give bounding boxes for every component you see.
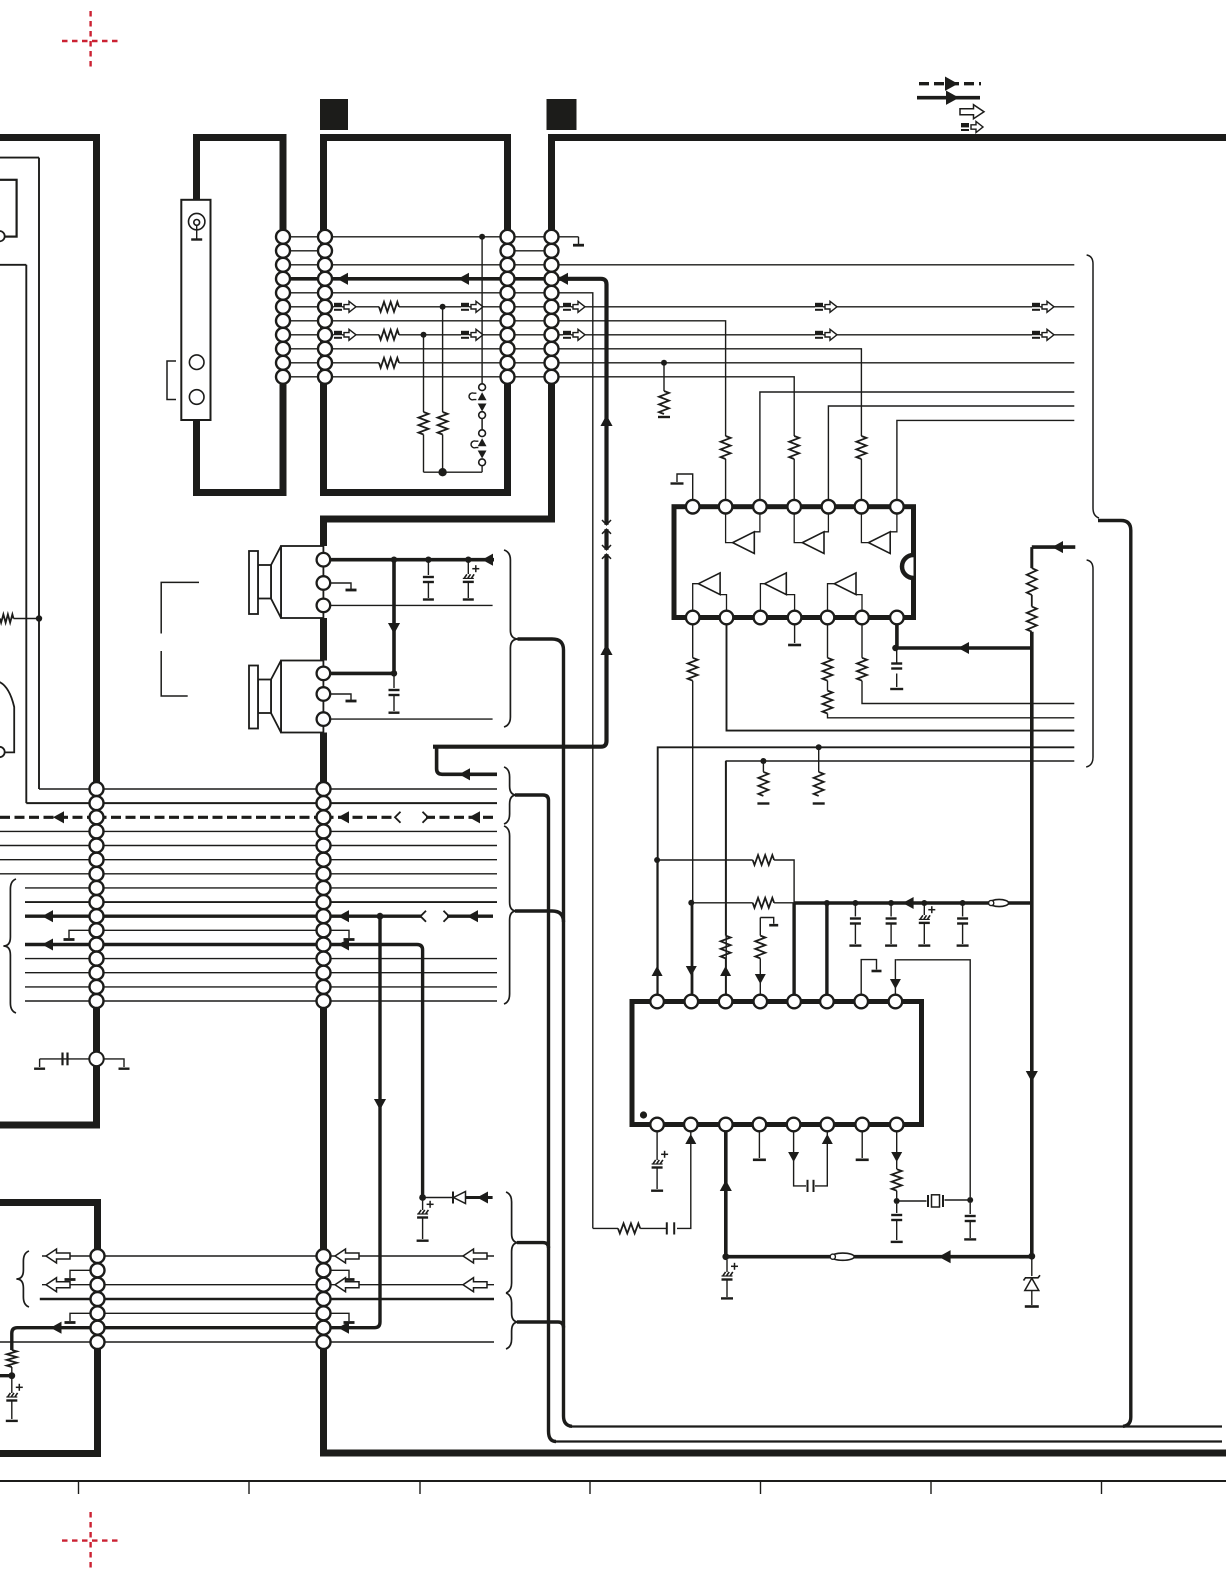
bottom long wire B1 horizontal [554, 1440, 1222, 1442]
mid row 2 wire [97, 802, 324, 804]
U2 pin14 junction dot [722, 1253, 729, 1260]
decoupling cap at U1 pin13 [896, 648, 898, 663]
bottom right brace group A [506, 1192, 519, 1293]
speaker SP1 [322, 546, 329, 618]
left board outline upper [0, 138, 97, 1126]
right stub of junction [104, 1059, 124, 1067]
U2 pin2 feed arrow [690, 903, 692, 995]
power bus y903 thick [794, 901, 1032, 905]
junction dot at bus column [1028, 1253, 1035, 1260]
IC U2 pin1 mark [640, 1111, 647, 1118]
U2 pin3 feed resistor [725, 761, 727, 936]
row 6 resistor to cap [7, 1350, 17, 1367]
speaker SP2 [322, 661, 329, 733]
thin group bracket lower right [1086, 560, 1093, 767]
bus cap C4 [962, 903, 964, 917]
U2 pin9 oscillator net [896, 1131, 898, 1169]
bottom connector left pins [91, 1249, 105, 1263]
U2 pin5 thick feed [792, 903, 795, 995]
net y903 junction dot [688, 900, 694, 906]
mid row 3 dashed bus wire [0, 816, 97, 819]
wire from x26.3 to mid pin 2 [26, 802, 90, 804]
top row 8 junction dot [421, 332, 427, 338]
oscillator feedback wire [897, 960, 970, 1197]
U2 pin1 feed arrow [656, 860, 658, 995]
SP2 ground wire [330, 694, 351, 700]
mid row 11 wire and ground stubs [97, 929, 324, 931]
mid row 15 wire [25, 986, 97, 988]
IC U2 body [632, 1002, 922, 1125]
top row 4 vertical crossover hops [604, 525, 610, 529]
bottom tie wire y472.2 [424, 471, 483, 473]
mid row 8 wire [25, 887, 97, 889]
top row 9 wire to IC1 pin6 [283, 348, 325, 350]
tie junction dot [438, 468, 446, 476]
legend open arrow [960, 105, 984, 119]
page marker square 1 [320, 99, 348, 130]
top row 1 ground [578, 237, 580, 244]
jumper omega label 2 [471, 441, 478, 448]
IC U2 bottom pins [650, 1118, 664, 1132]
U1 pin10 wire two resistors right [827, 624, 829, 658]
IC U1 bottom pins [686, 611, 700, 625]
resistor branch x818.7 [818, 747, 820, 772]
bus B1 joint from brace A [517, 1243, 549, 1248]
top row 3 wire [283, 264, 325, 266]
feed resistor into U1 pin2 [721, 436, 731, 459]
bottom left brace [16, 1251, 29, 1307]
feed resistor into U1 pin6 [856, 436, 866, 459]
mid row 5 wire [0, 845, 97, 847]
wire vert x38.5 down to junction [38, 158, 40, 789]
inverter U1b [802, 532, 824, 554]
U2 pin8 feed from crystal net [895, 960, 896, 995]
bus B1 from brace1 [515, 795, 556, 1442]
page marker square 2 [547, 99, 577, 130]
SP2 + wire thick [330, 672, 394, 676]
U1 pin11 ground stub [794, 624, 796, 643]
top row 5 wire [283, 292, 325, 294]
sensor side bracket [167, 361, 176, 400]
diode D2 [423, 1197, 452, 1199]
series cap into junction [40, 1058, 62, 1060]
top connector column 1 pins [276, 230, 290, 244]
top row 2 wires [283, 250, 325, 252]
bus resistor chain x1031.8 [1030, 547, 1033, 568]
bot row 2 ground stubs [70, 1270, 98, 1278]
sensor indicator stem [196, 225, 198, 238]
bus stub arrow top right [1032, 545, 1076, 549]
junction circle on left edge [63, 1058, 90, 1060]
U2 pin6 thick feed [825, 903, 828, 995]
U2 pin10 ground stub [861, 1131, 863, 1158]
wire resistor to junction [14, 618, 40, 620]
net wire y747.3 [658, 747, 1075, 1000]
legend dashed-arrow wire [919, 82, 981, 85]
U2 pin14 thick supply down [724, 1131, 728, 1257]
net y860 with resistor [657, 859, 753, 861]
top row 4 vertical up-arrows [600, 415, 612, 426]
top row 1 wire [283, 236, 325, 238]
mid row 4 wire [0, 830, 97, 832]
junction dot y747.3 [816, 744, 822, 750]
U1 pin13 junction dot [892, 645, 898, 651]
U2 pin15 wire to RC net [677, 1131, 691, 1228]
U1 pin13 thick supply wire [897, 624, 1032, 648]
pull-down resistor x423.5 [423, 335, 425, 412]
bus cap C1 [854, 903, 856, 917]
crystal X1 [894, 1198, 900, 1204]
speaker group brace right [504, 550, 518, 727]
mid row 1 wire [97, 788, 324, 790]
mid right brace group 1 [504, 767, 517, 824]
bot row 5 ground stubs [98, 1312, 324, 1314]
mid row 13 wire [25, 958, 97, 960]
resistor branch x763.4 [762, 761, 764, 772]
gate output circle [0, 747, 5, 757]
supply rail wire w/ bead [726, 1255, 1032, 1259]
bot row 7 wire [0, 1341, 98, 1343]
registration cross bottom-left [62, 1512, 121, 1571]
U2 pin7 step ground [861, 960, 876, 995]
mid row 14 wire [25, 972, 97, 974]
mid row 16 wire [25, 1000, 97, 1002]
sensor circle B [189, 390, 204, 405]
SP1 - wire [330, 604, 493, 606]
top row 8 wire with bus taps [283, 334, 325, 336]
U2 pin16 electrolytic [656, 1131, 658, 1160]
IC U2 top pins [650, 995, 664, 1009]
top row 1 junction dot [479, 234, 485, 240]
mid connector left pins [90, 782, 104, 796]
top row 10 junction dot and resistor to ground [661, 360, 667, 366]
U2 pin4 step ground [760, 918, 773, 924]
bottom right brace group B [506, 1293, 519, 1349]
junction dot y761 [760, 758, 766, 764]
wire vert x26.3 [25, 265, 27, 803]
thick feed x380 down [330, 916, 380, 1327]
inverter U1d [698, 573, 720, 595]
thick net y746.7 drop stub [437, 747, 497, 775]
bottom rule line with ticks [0, 1480, 1226, 1482]
speaker group bracket [161, 582, 199, 633]
bus junction dots [824, 900, 830, 906]
electrolytic at diode [422, 1198, 424, 1211]
jumper chain x482.1 [481, 237, 483, 384]
sub board B outline [324, 138, 508, 493]
mid row 6 wire [0, 859, 97, 861]
legend solid-arrow wire [917, 96, 980, 100]
top row 7 wire to IC1 pin2 [283, 320, 325, 322]
top connector column 2 pins [318, 230, 332, 244]
feed resistor into U1 pin4 [789, 436, 799, 459]
U1 pin12 wire resistor right [861, 624, 863, 658]
top row 6 wire with bus taps [283, 306, 325, 308]
U2 pin4 feed resistor [759, 918, 761, 936]
bottom connector right pins [317, 1249, 331, 1263]
bot row 4 wire [40, 1298, 98, 1301]
U1 pin5 wire up and right [828, 406, 1074, 500]
sensor circle A [189, 355, 204, 370]
bus bead [990, 899, 1009, 906]
U2 pin12 to pin11 series cap [794, 1131, 806, 1186]
inverter U1a [733, 532, 755, 554]
SP2 - wire [330, 718, 493, 720]
crystal cap A [896, 1204, 898, 1213]
net y903 thin part with resistor [691, 902, 752, 904]
net wire y761 [726, 761, 1074, 996]
mid left group brace [3, 879, 16, 1013]
mid row 10 thick wire [25, 915, 97, 918]
U1 pin3 wire up and right [760, 392, 1074, 500]
inverter U1e [765, 573, 787, 595]
bus B2 joint from brace2 [515, 911, 564, 922]
signal bus to bracket (B2 top) [1098, 521, 1131, 1427]
pull-down resistor x442.6 [442, 307, 444, 412]
U2 pin14 electrolytic [726, 1260, 728, 1272]
wire horiz y264.6 [0, 264, 26, 266]
IC U1 notch [902, 555, 914, 578]
sensor top indicator circle [189, 213, 205, 229]
mid row 12 thick wire [25, 943, 97, 946]
bot row 3 wire [42, 1284, 98, 1286]
bot row 1 wire [42, 1255, 98, 1257]
top connector column 4 pins [545, 230, 559, 244]
top row 11 wire to IC1 pin4 [283, 376, 325, 378]
SP1 ground wire [330, 583, 351, 589]
bot row 6 thick wire [98, 1326, 324, 1329]
top row 6 junction dot [440, 304, 446, 310]
top connector column 3 pins [501, 230, 515, 244]
inverter U1c [869, 532, 891, 554]
terminal circle on left board edge [0, 231, 5, 241]
row 6 electrolytic [11, 1376, 13, 1393]
sensor body [181, 200, 210, 420]
zener diode D1 [1031, 1256, 1033, 1276]
IC U1 pin1 top step-ground [677, 474, 693, 500]
mid row 10 junction dot [377, 913, 384, 920]
gate shape at left edge [0, 681, 14, 752]
bus B2 joint from brace B [517, 1322, 564, 1328]
cap C-sp3 [393, 673, 395, 688]
thin group bracket upper right [1087, 255, 1099, 518]
crystal cap B [969, 1203, 971, 1214]
U1 pin8 wire down w/ resistor to IC2 [692, 624, 694, 658]
left board outline lower [0, 1203, 98, 1454]
IC U1 top pins [686, 500, 700, 514]
inverter U1f [834, 573, 856, 595]
net y860 junction dot [654, 857, 660, 863]
speaker SP2 terminals [317, 667, 331, 681]
mid right brace group 2 [504, 826, 517, 1004]
mid row 7 wire [0, 873, 97, 875]
legend box-arrow symbol [961, 123, 969, 131]
cap C-sp1 [427, 560, 429, 575]
U1 pin7 wire up and right [897, 420, 1074, 500]
speaker SP1 terminals [317, 553, 331, 567]
SP1 + wire thick [330, 558, 494, 562]
mid row 9 wire [25, 901, 97, 903]
component box in left board [0, 180, 17, 237]
speaker bus to B2 [518, 639, 573, 1426]
bus cap C2 [890, 903, 892, 917]
U1 pin9 wire down right [727, 624, 1075, 731]
top row 10 wire [283, 362, 325, 364]
bus cap C3 electrolytic [923, 903, 925, 915]
wire from x38.5 to mid pin 1 [39, 788, 90, 790]
sub board A outline [197, 138, 284, 493]
top row 4 thick arrow wire [283, 277, 325, 281]
resistor R-left on edge [0, 614, 14, 622]
wire horiz y157 [0, 157, 39, 159]
IC U1 body [674, 507, 914, 618]
electrolytic cap C-sp2 [467, 560, 469, 574]
jumper omega label 1 [469, 393, 476, 400]
bottom long wire B2 horizontal [569, 1425, 1222, 1427]
bus down arrow [1026, 1071, 1038, 1082]
RC series net into pin15 [666, 1222, 668, 1234]
registration cross top-left [62, 11, 121, 70]
supply junction dot x422.6 [419, 1194, 426, 1201]
main board outline [324, 138, 1226, 1454]
junction dot x38.5 y618.5 [36, 615, 42, 621]
inter-speaker feed wire [392, 560, 396, 674]
mid connector right pins [317, 782, 331, 796]
U2 pin13 ground stub [758, 1131, 760, 1158]
